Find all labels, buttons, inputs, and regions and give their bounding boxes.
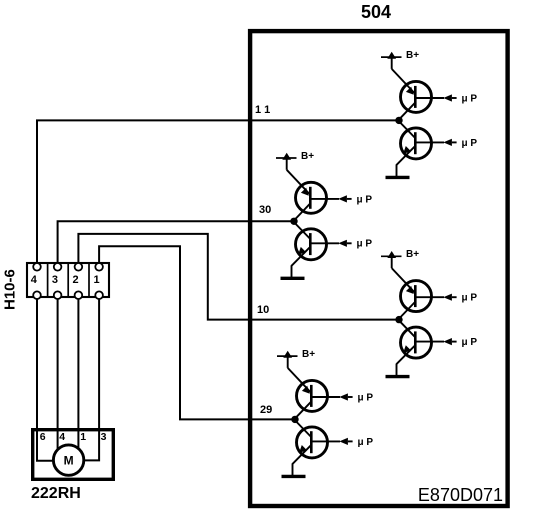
motor housing box (222RH) bbox=[33, 430, 114, 480]
ground (pair 4) bbox=[282, 463, 306, 476]
svg-text:μ P: μ P bbox=[462, 93, 478, 104]
label microprocessor uP (to Q8 base) bbox=[358, 437, 374, 448]
connector H10-6 body bbox=[27, 263, 109, 297]
label motor pin 6 bbox=[40, 431, 46, 443]
label microprocessor uP (to Q6 base) bbox=[462, 337, 478, 348]
svg-text:B+: B+ bbox=[302, 349, 315, 360]
svg-text:μ P: μ P bbox=[357, 194, 373, 205]
svg-text:30: 30 bbox=[259, 204, 271, 216]
label motor pin 3 bbox=[101, 431, 107, 443]
svg-text:2: 2 bbox=[73, 274, 79, 286]
node: output junction pin 11 bbox=[395, 117, 402, 124]
label motor pin 4 bbox=[59, 431, 65, 443]
Q5 base lead from microprocessor (arrow) bbox=[415, 294, 456, 301]
connector H10-6 cavity 3 pin circles bbox=[54, 263, 62, 299]
wire net 10: H10-6 pin 2 to driver output bbox=[78, 234, 399, 320]
label E870D071 (drawing number) bbox=[418, 485, 503, 505]
svg-text:504: 504 bbox=[361, 2, 391, 22]
wire H10-6 pin 1 to motor pin 3 bbox=[80, 299, 99, 460]
svg-text:10: 10 bbox=[257, 304, 269, 316]
Q6 base lead from microprocessor (arrow) bbox=[415, 338, 456, 345]
svg-text:μ P: μ P bbox=[462, 293, 478, 304]
label B+ (pair 2) bbox=[301, 151, 314, 162]
Q7 base lead from microprocessor (arrow) bbox=[311, 393, 352, 400]
label connector cavity 1 bbox=[93, 274, 99, 286]
svg-text:3: 3 bbox=[52, 274, 58, 286]
wire H10-6 pin 4 to motor pin 6 bbox=[37, 299, 58, 461]
node: output junction pin 29 bbox=[291, 416, 298, 423]
svg-text:4: 4 bbox=[31, 274, 38, 286]
svg-text:1 1: 1 1 bbox=[255, 104, 270, 116]
svg-text:μ P: μ P bbox=[358, 392, 374, 403]
label microprocessor uP (to Q7 base) bbox=[358, 392, 374, 403]
transistor Q5 high-side PNP driver (pin 10) bbox=[392, 268, 432, 318]
node: output junction pin 10 bbox=[395, 316, 402, 323]
svg-text:B+: B+ bbox=[406, 249, 419, 260]
svg-text:6: 6 bbox=[40, 431, 46, 443]
connector H10-6 cavity 4 pin circles bbox=[33, 263, 41, 299]
svg-text:4: 4 bbox=[59, 431, 65, 443]
svg-text:1: 1 bbox=[80, 431, 86, 443]
label connector cavity 4 bbox=[31, 274, 38, 286]
transistor Q7 high-side PNP driver (pin 29) bbox=[288, 368, 328, 418]
module box 504 (ECU outline) bbox=[250, 31, 508, 506]
svg-text:μ P: μ P bbox=[462, 337, 478, 348]
svg-text:μ P: μ P bbox=[462, 138, 478, 149]
ground (pair 2) bbox=[281, 265, 305, 278]
label microprocessor uP (to Q3 base) bbox=[357, 194, 373, 205]
transistor Q1 high-side PNP driver (pin 11) bbox=[392, 69, 432, 119]
B+ supply terminal (pair 1, pin 11) bbox=[381, 52, 402, 69]
wire H10-6 pin 3 to motor pin 4 bbox=[57, 299, 59, 453]
B+ supply terminal (pair 3, pin 10) bbox=[381, 251, 402, 268]
label pin 30 bbox=[259, 204, 271, 216]
Q8 base lead from microprocessor (arrow) bbox=[311, 438, 352, 445]
ground (pair 3) bbox=[386, 364, 410, 377]
svg-text:3: 3 bbox=[101, 431, 107, 443]
label B+ (pair 3) bbox=[406, 249, 419, 260]
B+ supply terminal (pair 2, pin 30) bbox=[276, 153, 297, 170]
label pin 11 bbox=[255, 104, 270, 116]
label microprocessor uP (to Q4 base) bbox=[357, 239, 373, 250]
wire H10-6 pin 2 to motor pin 1 bbox=[77, 299, 79, 453]
svg-text:1: 1 bbox=[93, 274, 99, 286]
label B+ (pair 1) bbox=[406, 50, 419, 61]
transistor Q4 low-side NPN driver (pin 30) bbox=[292, 223, 327, 266]
label pin 29 bbox=[260, 404, 272, 416]
label pin 10 bbox=[257, 304, 269, 316]
svg-text:222RH: 222RH bbox=[31, 485, 81, 502]
svg-text:B+: B+ bbox=[406, 50, 419, 61]
label microprocessor uP (to Q1 base) bbox=[462, 93, 478, 104]
label connector cavity 3 bbox=[52, 274, 58, 286]
motor M (window lift motor) bbox=[53, 445, 83, 475]
svg-text:μ P: μ P bbox=[358, 437, 374, 448]
label microprocessor uP (to Q2 base) bbox=[462, 138, 478, 149]
B+ supply terminal (pair 4, pin 29) bbox=[277, 351, 298, 368]
transistor Q6 low-side NPN driver (pin 10) bbox=[397, 321, 432, 364]
wire net 29: H10-6 pin 1 to driver output bbox=[99, 246, 295, 419]
wire net 30: H10-6 pin 3 to driver output bbox=[58, 221, 294, 263]
svg-text:B+: B+ bbox=[301, 151, 314, 162]
svg-text:E870D071: E870D071 bbox=[418, 485, 503, 505]
label microprocessor uP (to Q5 base) bbox=[462, 293, 478, 304]
svg-text:29: 29 bbox=[260, 404, 272, 416]
svg-text:M: M bbox=[64, 453, 74, 467]
transistor Q3 high-side PNP driver (pin 30) bbox=[287, 170, 327, 220]
label 504 (module number) bbox=[361, 2, 391, 22]
wire net 11: H10-6 pin 4 to driver output, with corner at top left bbox=[37, 120, 399, 263]
Q4 base lead from microprocessor (arrow) bbox=[310, 240, 351, 247]
Q3 base lead from microprocessor (arrow) bbox=[310, 195, 351, 202]
svg-text:H10-6: H10-6 bbox=[2, 269, 19, 310]
connector H10-6 cavity 1 pin circles bbox=[95, 263, 103, 299]
node: output junction pin 30 bbox=[290, 218, 297, 225]
transistor Q2 low-side NPN driver (pin 11) bbox=[397, 122, 432, 165]
label connector cavity 2 bbox=[73, 274, 79, 286]
Q1 base lead from microprocessor (arrow) bbox=[415, 94, 456, 101]
transistor Q8 low-side NPN driver (pin 29) bbox=[293, 421, 328, 464]
label motor pin 1 bbox=[80, 431, 86, 443]
label H10-6 (connector name, rotated) bbox=[2, 269, 19, 310]
label 222RH (motor part number) bbox=[31, 485, 81, 502]
svg-text:μ P: μ P bbox=[357, 239, 373, 250]
label B+ (pair 4) bbox=[302, 349, 315, 360]
connector H10-6 cavity 2 pin circles bbox=[75, 263, 83, 299]
ground (pair 1) bbox=[386, 164, 410, 177]
Q2 base lead from microprocessor (arrow) bbox=[415, 139, 456, 146]
